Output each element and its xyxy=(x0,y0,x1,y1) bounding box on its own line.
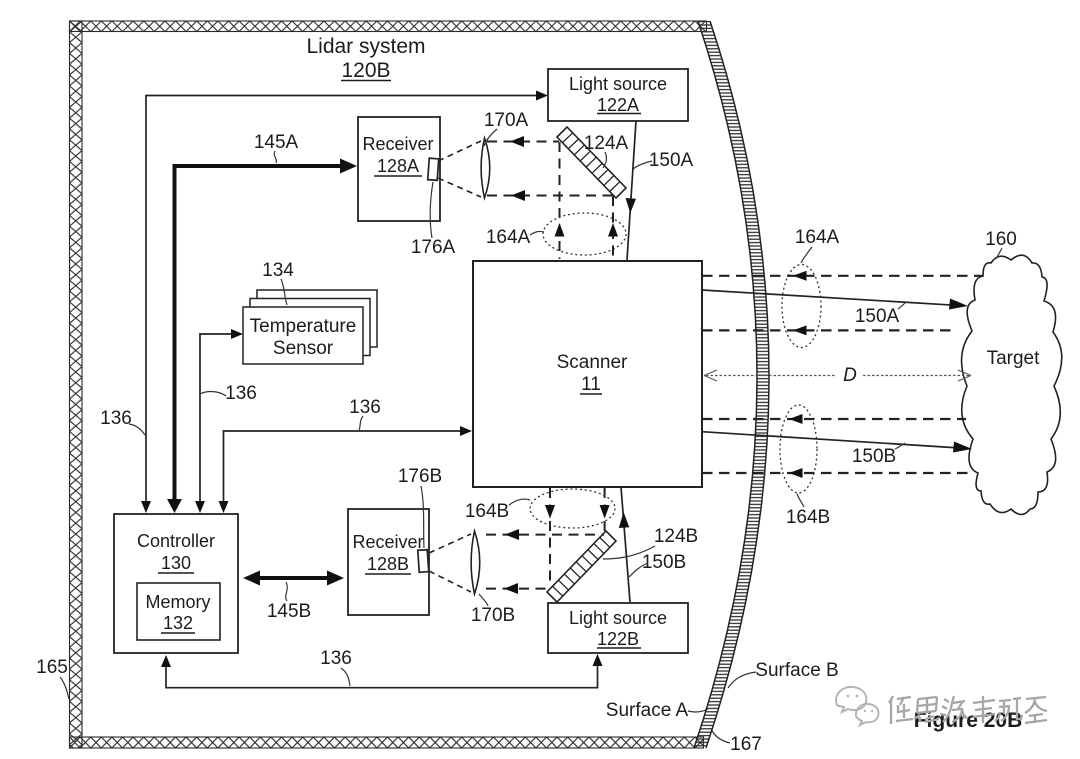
svg-text:Surface B: Surface B xyxy=(755,660,838,681)
svg-text:130: 130 xyxy=(161,553,191,573)
enclosure hatched border: left band xyxy=(70,21,83,748)
svg-text:Temperature: Temperature xyxy=(250,316,357,337)
polarization ellipse 164A (outer) xyxy=(782,265,821,348)
svg-text:124B: 124B xyxy=(654,526,698,547)
dashed beams detector 176B to lens 170B xyxy=(429,534,471,592)
thick wire 145A: controller to receiver 128A xyxy=(167,159,357,514)
label 134 xyxy=(262,260,294,305)
enclosure hatched border: top band xyxy=(70,21,707,32)
scanner 11 box xyxy=(473,261,702,487)
thick bus 145B: controller to receiver 128B xyxy=(243,571,344,586)
dashed vertical beams above scanner xyxy=(555,142,619,259)
label 160 xyxy=(985,229,1017,259)
svg-text:164A: 164A xyxy=(795,227,840,248)
svg-text:145B: 145B xyxy=(267,601,311,622)
dashed beam lens 170A to mirror 124A (upper) xyxy=(487,136,559,147)
wire: controller to light source 122A (net 136) xyxy=(141,91,548,514)
label 150B (inner) xyxy=(629,552,686,577)
svg-text:150B: 150B xyxy=(642,552,686,573)
lens 170A xyxy=(481,138,490,198)
label 136 (center) xyxy=(349,397,381,430)
label Surface B xyxy=(728,660,839,688)
wire: controller to scanner (net 136) xyxy=(219,426,473,513)
svg-text:164B: 164B xyxy=(465,501,509,522)
mirror 124A xyxy=(557,127,626,198)
return dashed beam (second) xyxy=(702,325,957,335)
dashed vertical beams below scanner xyxy=(545,488,610,586)
wire: controller to temperature sensor (net 136) xyxy=(195,329,243,513)
label 164B (inner) xyxy=(465,499,530,522)
svg-text:176A: 176A xyxy=(411,237,456,258)
svg-text:Receiver: Receiver xyxy=(362,134,433,154)
label 136 (upper middle) xyxy=(200,383,257,404)
label 124A xyxy=(584,133,629,168)
dashed beam lens 170B to mirror 124B (upper) xyxy=(486,529,604,540)
svg-text:136: 136 xyxy=(349,397,381,418)
label 136 (bottom) xyxy=(320,648,352,686)
label 164B (outer) xyxy=(786,494,830,528)
svg-text:Light source: Light source xyxy=(569,74,667,94)
svg-text:Sensor: Sensor xyxy=(273,338,334,359)
detector 176B xyxy=(418,550,429,573)
svg-text:124A: 124A xyxy=(584,133,629,154)
target 160 cloud xyxy=(962,255,1062,514)
wire: bottom net 136 between controller and light source 122B xyxy=(161,654,603,689)
label 176A xyxy=(411,182,456,258)
beam 150B: light source 122B to scanner xyxy=(619,487,630,602)
label 176B xyxy=(398,466,442,548)
svg-text:D: D xyxy=(843,365,857,386)
label 124B xyxy=(603,526,698,559)
dashed beam lens 170B to mirror 124B (lower) xyxy=(486,583,550,594)
memory 132 box xyxy=(137,583,220,640)
svg-text:134: 134 xyxy=(262,260,294,281)
dashed beam lens 170A to mirror 124A (lower) xyxy=(487,190,614,201)
polarization ellipse 164B (outer) xyxy=(780,405,817,493)
polarization ellipse 164A (inner) xyxy=(543,213,626,255)
figure caption xyxy=(914,709,1023,732)
svg-text:128B: 128B xyxy=(367,554,409,574)
svg-text:170B: 170B xyxy=(471,605,515,626)
svg-text:150B: 150B xyxy=(852,446,896,467)
svg-text:Receiver: Receiver xyxy=(352,532,423,552)
beam 150A: light source 122A to scanner xyxy=(626,121,637,260)
svg-text:128A: 128A xyxy=(377,156,419,176)
svg-text:164B: 164B xyxy=(786,507,830,528)
svg-text:122A: 122A xyxy=(597,95,639,115)
svg-text:122B: 122B xyxy=(597,629,639,649)
svg-text:170A: 170A xyxy=(484,110,529,131)
svg-text:11: 11 xyxy=(581,374,601,395)
light source 122A box xyxy=(548,69,688,121)
svg-text:Lidar system: Lidar system xyxy=(306,35,425,58)
label 170A xyxy=(484,110,529,146)
svg-text:136: 136 xyxy=(100,408,132,429)
outgoing beam 150A: scanner to target xyxy=(702,290,968,310)
label 150A (outer) xyxy=(855,302,906,327)
label 164A (inner) xyxy=(486,227,544,248)
svg-text:167: 167 xyxy=(730,734,762,755)
detector 176A xyxy=(428,158,439,180)
label 145A xyxy=(254,132,299,163)
label 170B xyxy=(471,594,515,626)
svg-text:136: 136 xyxy=(320,648,352,669)
svg-text:Target: Target xyxy=(987,348,1041,369)
svg-text:176B: 176B xyxy=(398,466,442,487)
label 150A (inner) xyxy=(633,150,694,171)
svg-text:164A: 164A xyxy=(486,227,531,248)
svg-text:120B: 120B xyxy=(341,59,390,82)
label Surface A xyxy=(606,700,708,721)
svg-text:150A: 150A xyxy=(855,306,900,327)
svg-text:132: 132 xyxy=(163,613,193,633)
receiver 128A box xyxy=(358,117,440,221)
svg-text:Scanner: Scanner xyxy=(557,352,628,373)
title: Lidar system 120B xyxy=(306,35,425,82)
svg-text:136: 136 xyxy=(225,383,257,404)
label 145B xyxy=(267,582,311,622)
receiver 128B box xyxy=(348,509,429,615)
svg-text:145A: 145A xyxy=(254,132,299,153)
label 165 xyxy=(36,657,69,699)
light source 122B box xyxy=(548,603,688,653)
outgoing beam 150B: scanner to target xyxy=(702,432,972,453)
label 136 (left) xyxy=(100,408,145,435)
svg-text:165: 165 xyxy=(36,657,68,678)
distance D dimension arrow xyxy=(704,365,971,386)
watermark logo (chat bubbles) xyxy=(836,687,878,725)
svg-text:Memory: Memory xyxy=(145,592,210,612)
mirror 124B xyxy=(547,531,616,602)
dashed beams detector 176A to lens 170A xyxy=(438,141,481,197)
enclosure hatched border: bottom band xyxy=(70,737,704,748)
svg-text:Surface A: Surface A xyxy=(606,700,689,721)
lens 170B xyxy=(471,531,480,594)
label 150B (outer) xyxy=(852,443,905,467)
temperature sensor 134 stack xyxy=(243,290,377,364)
return dashed beam (bottom) xyxy=(702,468,973,478)
polarization ellipse 164B (inner) xyxy=(530,489,615,528)
label 167 xyxy=(711,728,762,755)
label 164A (outer) xyxy=(795,227,840,263)
return dashed beam (third) xyxy=(702,414,966,424)
curved window (surfaces A and B) xyxy=(694,21,769,748)
watermark text xyxy=(889,696,1047,724)
svg-text:150A: 150A xyxy=(649,150,694,171)
svg-text:Light source: Light source xyxy=(569,608,667,628)
controller 130 box xyxy=(114,514,238,653)
svg-text:Controller: Controller xyxy=(137,531,215,551)
svg-text:160: 160 xyxy=(985,229,1017,250)
return dashed beam (top) xyxy=(702,271,983,281)
